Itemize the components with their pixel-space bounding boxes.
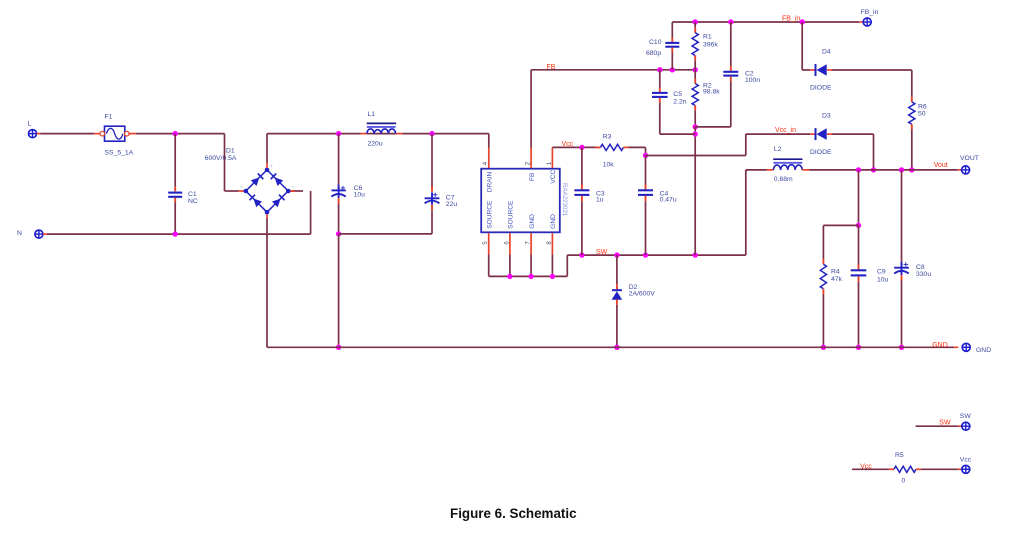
wire [530, 233, 532, 276]
junction [173, 131, 178, 136]
svg-text:330u: 330u [916, 271, 931, 278]
svg-text:DIODE: DIODE [810, 85, 832, 92]
svg-text:L1: L1 [368, 111, 376, 118]
wire [551, 233, 553, 276]
junction [899, 345, 904, 350]
junction [728, 19, 733, 24]
svg-text:Vcc: Vcc [860, 463, 872, 470]
wire [339, 233, 432, 235]
svg-text:R3: R3 [603, 133, 612, 140]
resistor R6 [909, 70, 927, 170]
junction [856, 223, 861, 228]
terminal VOUT [960, 155, 979, 174]
terminal N [17, 230, 43, 238]
svg-text:SOURCE: SOURCE [487, 200, 494, 229]
wire [827, 134, 874, 170]
wire [745, 170, 747, 255]
svg-text:0.47u: 0.47u [660, 197, 677, 204]
svg-text:FB_in: FB_in [861, 9, 879, 16]
svg-text:680p: 680p [646, 50, 661, 57]
wire [94, 133, 100, 135]
wire [290, 191, 310, 234]
diode D2 [612, 255, 656, 347]
junction [528, 274, 533, 279]
junction [856, 167, 861, 172]
junction [693, 131, 698, 136]
wire [266, 134, 268, 168]
svg-text:10u: 10u [877, 276, 889, 283]
junction [507, 274, 512, 279]
wire [916, 425, 962, 427]
svg-text:+: + [271, 164, 274, 169]
resistor R5 [889, 452, 921, 484]
svg-text:47k: 47k [831, 276, 843, 283]
inductor L1 [367, 111, 396, 147]
svg-text:2A/600V: 2A/600V [629, 291, 656, 298]
net SW [939, 420, 951, 427]
inductor L2 [773, 146, 802, 183]
svg-text:GND: GND [550, 214, 557, 229]
svg-text:DRAIN: DRAIN [487, 172, 494, 193]
svg-text:10u: 10u [354, 191, 366, 198]
capacitor C7 [425, 134, 458, 234]
terminal Vcc [960, 457, 972, 474]
capacitor C1 [168, 134, 198, 235]
wire [660, 133, 695, 135]
wire [746, 169, 774, 171]
junction [871, 167, 876, 172]
svg-text:DIODE: DIODE [810, 149, 832, 156]
svg-text:50: 50 [918, 111, 926, 118]
svg-text:FB: FB [546, 64, 555, 71]
capacitor C6 [331, 134, 365, 234]
wire [488, 134, 490, 168]
capacitor C9 [851, 225, 889, 347]
junction [899, 167, 904, 172]
svg-text:C8: C8 [916, 264, 925, 271]
svg-text:~: ~ [292, 185, 295, 190]
pin 8 [546, 241, 553, 245]
terminal GND [962, 343, 991, 354]
IC U1 RAA223021 [481, 169, 568, 233]
net Vcc [562, 141, 574, 148]
net Vout [934, 162, 948, 169]
svg-text:R1: R1 [703, 34, 712, 41]
net GND [932, 342, 948, 349]
svg-text:SS_5_1A: SS_5_1A [105, 150, 134, 157]
net Vcc [860, 463, 872, 470]
svg-text:GND: GND [529, 214, 536, 229]
net SW [596, 249, 608, 256]
svg-text:NC: NC [188, 198, 198, 205]
capacitor C3 [574, 147, 605, 255]
wire [267, 346, 958, 348]
diode D4 [810, 48, 832, 91]
svg-text:F1: F1 [105, 114, 113, 121]
wire [239, 190, 244, 192]
svg-text:600V/0.5A: 600V/0.5A [205, 155, 237, 162]
pin 4 [482, 161, 489, 165]
wire [823, 225, 858, 259]
capacitor C5 [652, 70, 687, 134]
junction [173, 231, 178, 236]
wire [552, 147, 600, 168]
svg-text:VOUT: VOUT [960, 155, 979, 162]
junction [550, 274, 555, 279]
figure caption [5, 506, 1017, 521]
net Vcc_in [775, 127, 796, 134]
svg-text:100n: 100n [745, 77, 760, 84]
svg-text:D4: D4 [822, 48, 831, 55]
wire [921, 468, 962, 470]
terminal FB_in [861, 9, 879, 26]
capacitor C10 [646, 22, 679, 70]
svg-text:C5: C5 [673, 91, 682, 98]
pin 7 [525, 241, 532, 245]
junction [693, 252, 698, 257]
junction [670, 67, 675, 72]
pin 2 [525, 161, 532, 165]
svg-text:L2: L2 [774, 146, 782, 153]
junction [693, 124, 698, 129]
wire [802, 169, 961, 171]
svg-text:220u: 220u [368, 140, 383, 147]
wire [827, 69, 912, 71]
svg-text:GND: GND [932, 342, 948, 349]
svg-text:SW: SW [939, 420, 951, 427]
wire [129, 133, 224, 135]
capacitor C8 [894, 170, 931, 347]
junction [579, 145, 584, 150]
pin 5 [482, 241, 489, 245]
junction [693, 67, 698, 72]
svg-text:2.2n: 2.2n [673, 98, 686, 105]
svg-text:1u: 1u [596, 197, 604, 204]
wire [225, 134, 239, 191]
svg-text:RAA223021: RAA223021 [561, 183, 568, 217]
svg-text:-: - [268, 213, 270, 218]
junction [643, 153, 648, 158]
diode D3 [810, 113, 832, 156]
resistor R3 [595, 133, 645, 168]
wire [488, 233, 490, 276]
junction [336, 345, 341, 350]
capacitor C4 [638, 156, 677, 256]
svg-text:SOURCE: SOURCE [508, 200, 515, 229]
svg-text:98.8k: 98.8k [703, 89, 720, 96]
wire [43, 233, 311, 235]
svg-text:22u: 22u [446, 201, 458, 208]
wire [672, 21, 863, 23]
capacitor C2 [723, 22, 760, 127]
junction [614, 345, 619, 350]
net FB [546, 64, 555, 71]
svg-text:C9: C9 [877, 268, 886, 275]
resistor R2 [692, 70, 698, 127]
junction [579, 252, 584, 257]
svg-text:VCC: VCC [550, 169, 557, 183]
pin 6 [503, 241, 510, 245]
wire [646, 134, 746, 155]
svg-text:10k: 10k [603, 162, 615, 169]
wire [361, 133, 403, 135]
junction [800, 19, 805, 24]
junction [429, 131, 434, 136]
wire [746, 133, 815, 135]
wire [489, 255, 568, 276]
svg-text:396k: 396k [703, 41, 718, 48]
junction [693, 19, 698, 24]
fuse F1 [100, 114, 134, 157]
junction [336, 231, 341, 236]
junction [643, 252, 648, 257]
svg-text:R4: R4 [831, 268, 840, 275]
resistor R1 [692, 22, 718, 70]
label R2 [703, 83, 720, 96]
svg-text:GND: GND [976, 347, 991, 354]
wire [802, 22, 815, 70]
svg-text:FB: FB [529, 172, 536, 181]
svg-text:FB_in: FB_in [782, 15, 800, 22]
terminal SW [960, 413, 972, 430]
svg-text:D1: D1 [226, 148, 235, 155]
junction [909, 167, 914, 172]
junction [657, 67, 662, 72]
svg-text:SW: SW [960, 413, 972, 420]
svg-text:D3: D3 [822, 113, 831, 120]
svg-text:L: L [28, 121, 32, 128]
svg-text:0: 0 [902, 478, 906, 485]
wire [694, 127, 696, 255]
resistor R4 [820, 259, 842, 347]
wire [266, 214, 268, 347]
junction [856, 345, 861, 350]
wire [403, 133, 489, 135]
svg-text:Vcc_in: Vcc_in [775, 127, 796, 134]
svg-text:Vcc: Vcc [562, 141, 574, 148]
svg-text:SW: SW [596, 249, 608, 256]
svg-text:C10: C10 [649, 39, 662, 46]
junction [336, 131, 341, 136]
wire [338, 234, 340, 347]
svg-text:R6: R6 [918, 104, 927, 111]
wire [858, 170, 860, 226]
net FB_in [782, 15, 800, 22]
wire [567, 254, 746, 256]
svg-text:R5: R5 [895, 452, 904, 459]
svg-text:Vcc: Vcc [960, 457, 972, 464]
junction [614, 252, 619, 257]
pin 1 [546, 161, 553, 165]
terminal L [28, 121, 37, 138]
svg-text:~: ~ [240, 185, 243, 190]
wire [852, 468, 889, 470]
svg-text:N: N [17, 230, 22, 237]
junction [821, 345, 826, 350]
wire [509, 233, 511, 276]
wire [267, 133, 361, 135]
wire [37, 133, 95, 135]
wire [531, 70, 695, 168]
label D1 [205, 148, 237, 163]
wire [695, 126, 731, 128]
svg-text:Vout: Vout [934, 162, 948, 169]
bridge rectifier D1 [240, 164, 295, 218]
svg-text:4: 4 [482, 161, 489, 165]
svg-text:0.68m: 0.68m [774, 176, 793, 183]
